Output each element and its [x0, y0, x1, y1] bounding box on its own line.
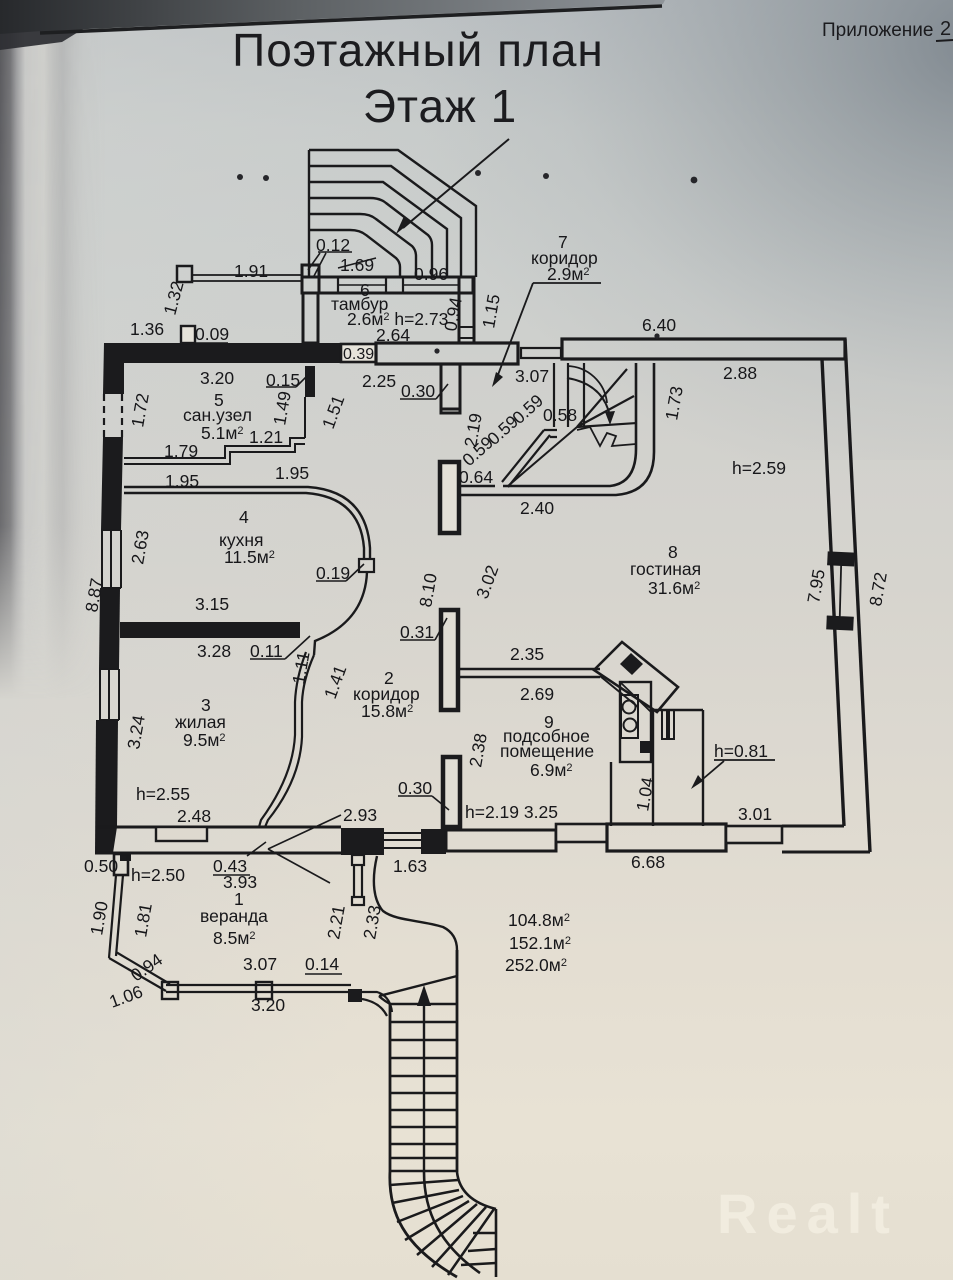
bottom wall band under corridor	[446, 830, 556, 851]
svg-text:1.51: 1.51	[318, 393, 348, 432]
right exterior wall (hollow, tilted)	[845, 339, 870, 852]
1.69 strikethrough	[338, 258, 376, 268]
svg-text:0.30: 0.30	[401, 381, 435, 401]
svg-text:0.14: 0.14	[305, 954, 339, 974]
veranda left pier	[114, 854, 128, 875]
dark top-left corner of photo	[0, 0, 130, 50]
svg-text:1.06: 1.06	[107, 981, 146, 1011]
svg-text:0.09: 0.09	[195, 324, 229, 344]
0.11 leader	[250, 636, 310, 659]
svg-text:5.1м2: 5.1м2	[201, 423, 243, 443]
door box 0.39 in top wall	[341, 344, 376, 362]
san.uzel door pier	[305, 366, 315, 397]
T-wall below top wall (corridor7 left)	[441, 363, 460, 413]
top wall right section	[562, 339, 845, 359]
svg-text:6.9м2: 6.9м2	[530, 760, 572, 780]
tambour right wall	[459, 277, 474, 343]
0.30 leader (top)	[400, 384, 448, 399]
svg-text:2: 2	[940, 18, 951, 40]
bottom wall wide white box	[607, 824, 726, 851]
svg-text:h=2.55: h=2.55	[136, 784, 190, 804]
corridor S-wall (upper)	[265, 655, 314, 827]
reference dots	[237, 170, 697, 354]
stair direction arc + arrow	[567, 378, 610, 416]
0.15 leader	[266, 372, 311, 387]
exterior entrance fan stair (top)	[309, 150, 476, 277]
black pier 2.93	[341, 828, 384, 855]
corridor2/gostinaya wall pier (0.64)	[440, 462, 459, 533]
stair walk line + arrow	[423, 998, 425, 1172]
veranda bottom wall	[166, 985, 351, 992]
svg-text:1.32: 1.32	[160, 279, 188, 317]
porch pier box	[177, 266, 192, 282]
svg-text:11.5м2: 11.5м2	[224, 547, 275, 567]
svg-text:104.8м2: 104.8м2	[508, 910, 570, 930]
2.93 + 0.43 leaders	[247, 815, 341, 883]
curved walk from veranda door to stair	[374, 856, 457, 976]
svg-text:3.20: 3.20	[251, 995, 285, 1015]
stair enclosure wall	[459, 363, 636, 486]
page border line (top)	[0, 0, 665, 34]
stair fan treads	[390, 1180, 494, 1275]
svg-text:2.64: 2.64	[376, 325, 410, 345]
0.19 leader	[316, 564, 364, 581]
low storage walls (h=0.81)	[611, 710, 703, 826]
svg-text:2.40: 2.40	[520, 498, 554, 518]
svg-text:8.10: 8.10	[415, 571, 441, 608]
svg-text:3.28: 3.28	[197, 641, 231, 661]
svg-text:1.49: 1.49	[269, 390, 295, 427]
svg-text:h=2.50: h=2.50	[131, 865, 185, 885]
svg-text:0.11: 0.11	[250, 641, 283, 661]
entry curve from veranda to stair	[362, 992, 392, 1012]
left wall window (2.63)	[102, 530, 121, 588]
stair top diagonal	[379, 976, 457, 996]
fan stair arrow	[403, 139, 509, 228]
svg-text:2.35: 2.35	[510, 644, 544, 664]
svg-text:6.40: 6.40	[642, 315, 676, 335]
svg-text:8.72: 8.72	[865, 571, 891, 608]
black pier right of 1.63	[421, 829, 446, 854]
svg-text:Приложение: Приложение	[822, 20, 933, 41]
stair diagonal edge	[502, 430, 550, 487]
svg-text:Этаж 1: Этаж 1	[363, 80, 517, 132]
0.12 leader lines	[308, 252, 352, 276]
svg-text:1.95: 1.95	[165, 471, 199, 491]
door leaf in opening	[521, 348, 561, 358]
corridor7 leader	[496, 283, 601, 380]
svg-text:2.69: 2.69	[520, 684, 554, 704]
left wall window (3.24)	[100, 669, 119, 720]
stair treads vertical	[554, 363, 584, 427]
svg-text:3.24: 3.24	[123, 713, 149, 750]
bottom exterior wall (hollow with piers)	[95, 827, 341, 853]
svg-text:2.63: 2.63	[127, 529, 153, 566]
svg-text:0.39: 0.39	[343, 346, 374, 363]
left page curl	[0, 0, 105, 700]
svg-text:6.68: 6.68	[631, 852, 665, 872]
stair rungs	[390, 1004, 457, 1158]
svg-text:1.95: 1.95	[275, 463, 309, 483]
svg-text:9.5м2: 9.5м2	[183, 730, 225, 750]
veranda right wall	[354, 864, 362, 897]
svg-text:0.31: 0.31	[400, 622, 434, 642]
svg-text:2.93: 2.93	[343, 805, 377, 825]
san.uzel bottom stepped wall	[124, 438, 305, 464]
svg-text:0.15: 0.15	[266, 370, 300, 390]
window sill box (h=2.19/3.25)	[556, 824, 607, 842]
tambour top wall with piers	[302, 265, 319, 293]
svg-text:0.96: 0.96	[414, 264, 448, 284]
kitchen/zhilaya divider wall	[120, 622, 300, 638]
main top wall: solid section (san.uzel)	[104, 343, 341, 363]
svg-text:31.6м2: 31.6м2	[648, 578, 700, 598]
svg-text:252.0м2: 252.0м2	[505, 955, 567, 975]
svg-text:1.79: 1.79	[164, 441, 198, 461]
furnace (tilted)	[594, 642, 678, 712]
sink unit	[620, 682, 651, 762]
svg-text:2.21: 2.21	[323, 904, 349, 941]
svg-text:3.20: 3.20	[200, 368, 234, 388]
veranda corner diagonal	[109, 952, 170, 991]
stair curved part	[390, 1171, 457, 1277]
svg-text:15.8м2: 15.8м2	[361, 701, 413, 721]
svg-text:жилая: жилая	[175, 712, 226, 732]
svg-text:3.07: 3.07	[243, 954, 277, 974]
svg-text:1.63: 1.63	[393, 856, 427, 876]
svg-text:1.69: 1.69	[340, 255, 374, 275]
svg-text:2.25: 2.25	[362, 371, 396, 391]
svg-text:2.9м2: 2.9м2	[547, 264, 589, 284]
svg-text:3.15: 3.15	[195, 594, 229, 614]
svg-text:0.64: 0.64	[459, 467, 493, 487]
bottom wall window notch (zhilaya)	[156, 827, 207, 841]
window 1.63	[384, 833, 421, 848]
porch railing left of tambour	[193, 275, 302, 281]
svg-text:2.38: 2.38	[465, 732, 491, 769]
svg-text:h=2.59: h=2.59	[732, 458, 786, 478]
svg-text:2.33: 2.33	[359, 904, 385, 941]
svg-text:0.50: 0.50	[84, 856, 118, 876]
svg-text:1.11: 1.11	[288, 650, 313, 686]
top wall hollow band to corridor door	[376, 343, 518, 364]
svg-text:h=0.81: h=0.81	[714, 741, 768, 761]
svg-text:1.91: 1.91	[234, 261, 268, 281]
svg-text:7.95: 7.95	[803, 568, 829, 605]
svg-text:Поэтажный план: Поэтажный план	[232, 24, 604, 76]
right wall window block	[824, 551, 857, 630]
left exterior wall: black segments	[95, 343, 124, 853]
svg-text:0.58: 0.58	[543, 405, 577, 425]
tambour left wall	[303, 293, 318, 343]
pier below bottom wall left	[120, 853, 131, 861]
svg-text:Realt: Realt	[717, 1182, 899, 1245]
svg-text:1.36: 1.36	[130, 319, 164, 339]
svg-text:1.90: 1.90	[86, 899, 112, 936]
svg-text:0.12: 0.12	[316, 235, 350, 255]
svg-text:сан.узел: сан.узел	[183, 405, 252, 425]
svg-text:1.72: 1.72	[127, 392, 153, 429]
svg-text:3.02: 3.02	[472, 563, 502, 602]
stair zigzag break	[577, 427, 636, 446]
left wall dashed window (1.72)	[104, 394, 122, 437]
svg-text:1.21: 1.21	[249, 427, 283, 447]
0.43 / 0.14 / 0.09 underlines	[194, 343, 342, 974]
bottom wall right section to corner	[782, 826, 870, 852]
notch on curve	[359, 559, 374, 572]
svg-text:0.19: 0.19	[316, 563, 350, 583]
svg-text:h=2.19 3.25: h=2.19 3.25	[465, 802, 558, 822]
0.30 leader (bottom)	[398, 796, 449, 810]
exterior stair (bottom): straight flight	[379, 996, 390, 1004]
window sill box 3.01	[726, 826, 782, 843]
svg-text:1.41: 1.41	[320, 663, 350, 702]
corridor/podsobnoye wall piers	[441, 610, 458, 710]
h=0.81 arrow	[697, 761, 724, 784]
svg-text:4: 4	[239, 507, 249, 527]
svg-text:2.48: 2.48	[177, 806, 211, 826]
svg-text:гостиная: гостиная	[630, 559, 701, 579]
h=0.81 underline	[714, 759, 775, 761]
0.31 leader	[400, 618, 447, 640]
veranda left wall	[109, 875, 123, 958]
podsobnoye top wall	[458, 669, 600, 677]
svg-text:152.1м2: 152.1м2	[509, 933, 571, 953]
door swing arc (corridor7 to gostinaya)	[567, 366, 607, 403]
pier 0.09 on top wall	[181, 326, 195, 343]
svg-text:1.81: 1.81	[130, 902, 156, 939]
svg-text:8.5м2: 8.5м2	[213, 928, 255, 948]
kitchen top wall + curved wall	[124, 487, 370, 559]
kitchen lower curve	[314, 572, 367, 655]
svg-text:0.30: 0.30	[398, 778, 432, 798]
stair radial treads	[577, 369, 637, 427]
svg-text:3.07: 3.07	[515, 366, 549, 386]
top-right gray photo shading	[380, 0, 953, 460]
svg-text:2.88: 2.88	[723, 363, 757, 383]
svg-text:3.01: 3.01	[738, 804, 772, 824]
svg-text:веранда: веранда	[200, 906, 268, 926]
svg-text:помещение: помещение	[500, 741, 594, 761]
